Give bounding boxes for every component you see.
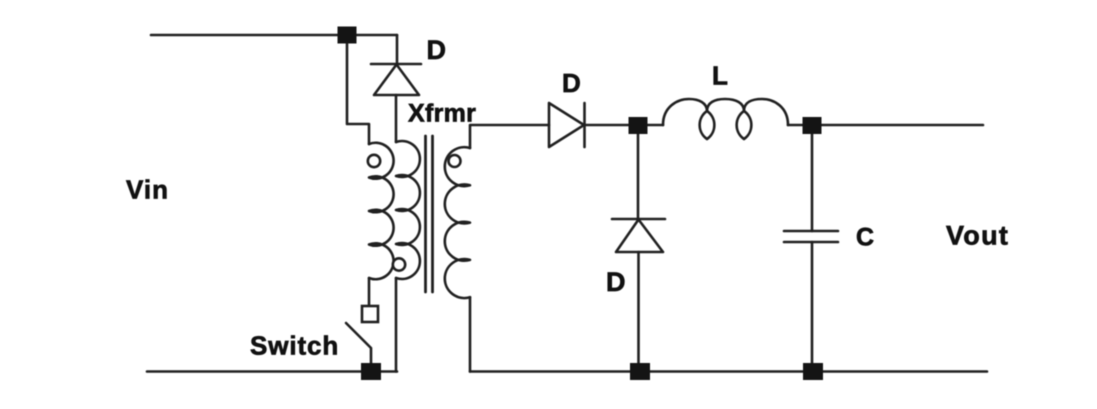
transformer primary winding (369, 143, 394, 280)
diode D (series) triangle (549, 103, 584, 147)
wire secondary top lead (470, 125, 549, 148)
wire clamp diode anode to reset winding (395, 95, 398, 142)
wire reset winding to bottom rail (395, 278, 398, 372)
svg-text:D: D (606, 267, 626, 297)
svg-text:C: C (856, 224, 874, 252)
wire series diode to node (585, 124, 630, 127)
wire junction drop to primary (347, 44, 369, 144)
svg-text:Xfrmr: Xfrmr (408, 100, 476, 128)
secondary polarity dot (449, 155, 461, 167)
wire right node to Vout (821, 124, 983, 127)
junction square top-left (338, 27, 357, 44)
primary polarity dot (368, 155, 380, 167)
reset polarity dot (393, 258, 405, 270)
svg-text:Vin: Vin (126, 175, 169, 205)
wire bottom-right rail (470, 370, 987, 373)
wire secondary bottom lead (469, 297, 472, 371)
diode D (freewheel) cathode bar (612, 218, 665, 221)
node square right-mid (803, 117, 822, 134)
svg-text:D: D (427, 35, 447, 65)
junction square bottom-left (361, 363, 381, 380)
capacitor C plates (784, 231, 838, 242)
svg-text:Vout: Vout (946, 221, 1009, 251)
inductor L (663, 99, 788, 139)
transformer secondary winding (445, 147, 470, 298)
wire node to inductor (647, 124, 663, 127)
wire node down to freewheel diode (637, 134, 640, 219)
svg-text:Switch: Switch (250, 331, 339, 361)
diode D (clamp) cathode bar (371, 63, 421, 66)
junction square bottom-mid (630, 363, 650, 380)
wire corner down to clamp diode (396, 35, 399, 64)
wire inductor to right node (788, 124, 803, 127)
switch lever (346, 323, 371, 363)
node square left-mid (629, 117, 648, 134)
wire right node down to capacitor (811, 134, 814, 231)
wire primary bottom lead (368, 278, 371, 306)
wire capacitor to bottom rail (811, 242, 814, 363)
diode D (clamp) triangle (374, 65, 419, 96)
wire top-left rail (151, 34, 397, 37)
transformer core (426, 136, 433, 292)
svg-text:D: D (562, 68, 581, 98)
diode D (freewheel) triangle (616, 220, 663, 253)
switch contact square (362, 306, 378, 322)
svg-text:L: L (712, 61, 728, 91)
junction square bottom-right (803, 363, 823, 380)
diode D (series) cathode bar (583, 103, 586, 147)
transformer reset winding (396, 141, 420, 279)
wire freewheel diode anode to bottom rail (637, 252, 640, 363)
wire bottom-left rail (147, 370, 397, 373)
